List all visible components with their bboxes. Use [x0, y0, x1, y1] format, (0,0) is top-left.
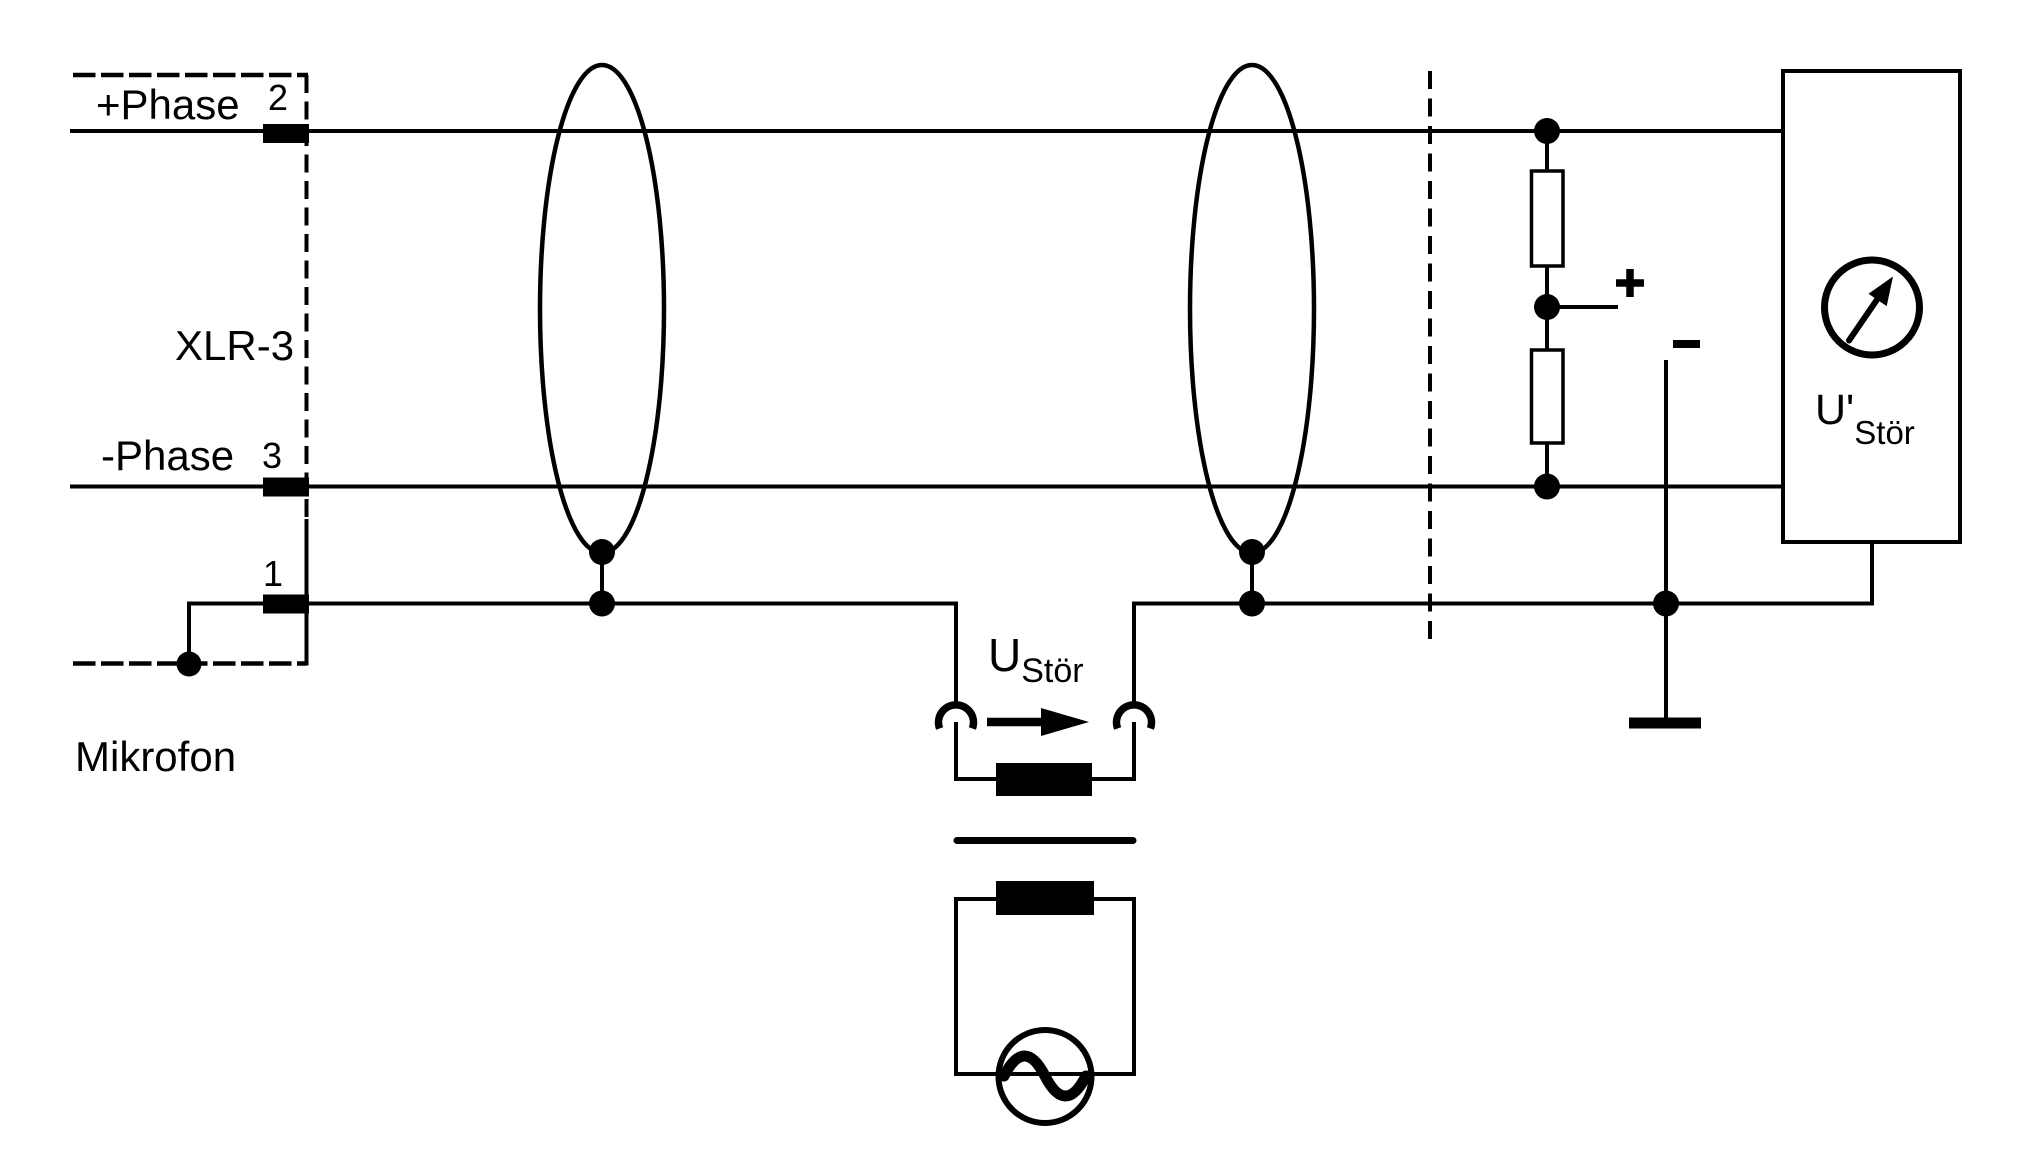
- cable shield ellipse 2: [1190, 65, 1314, 553]
- node shield wire junction 2: [1239, 591, 1265, 617]
- wire shield break left drop upper: [954, 602, 958, 704]
- cable shield ellipse 1: [540, 65, 664, 553]
- dashed boundary line: [1428, 71, 1432, 648]
- wire shield break right drop lower: [1132, 722, 1136, 781]
- node shield ellipse 1 bottom: [589, 539, 615, 565]
- AC source sine wave: [1004, 1056, 1086, 1096]
- ground bar: [1629, 718, 1701, 729]
- wire source loop top left: [956, 897, 996, 901]
- node shield wire junction 1: [589, 591, 615, 617]
- node divider top: [1534, 118, 1560, 144]
- XLR-3 connector dashed outline bottom edge: [73, 661, 306, 666]
- wire microphone drop to shield node: [187, 602, 191, 665]
- XLR-3 connector dashed outline right edge: [305, 75, 309, 519]
- svg-text:1: 1: [263, 553, 283, 594]
- current arrow shaft: [987, 718, 1047, 727]
- node ground junction: [1653, 591, 1679, 617]
- pin 3 contact block: [263, 478, 309, 497]
- XLR-3 connector right edge solid lower segment: [305, 519, 309, 666]
- wire shield right section: [1134, 602, 1872, 606]
- node divider tap: [1534, 294, 1560, 320]
- wire shield break left drop lower: [954, 722, 958, 781]
- meter needle head: [1869, 277, 1894, 307]
- wire source loop top right: [1094, 897, 1134, 901]
- XLR-3 connector dashed outline top edge: [73, 73, 308, 78]
- wire +Phase horizontal: [70, 129, 1783, 133]
- label plus sign: [1616, 269, 1644, 297]
- svg-text:3: 3: [262, 435, 282, 476]
- resistor R2: [1532, 350, 1564, 443]
- wire between resistors lower: [1545, 307, 1549, 350]
- wire minus reference vertical: [1664, 360, 1668, 604]
- wire shield ellipse 1 stub: [600, 552, 604, 603]
- wire to noise block left: [954, 777, 996, 781]
- wire source loop bottom: [954, 1072, 1136, 1076]
- pin 2 contact block: [263, 124, 309, 143]
- wire ground drop: [1664, 604, 1668, 722]
- svg-text:+Phase: +Phase: [96, 81, 240, 128]
- terminal hook right: [1117, 705, 1152, 729]
- svg-text:2: 2: [268, 77, 288, 118]
- svg-text:-Phase: -Phase: [101, 432, 234, 479]
- terminal hook left: [938, 705, 973, 729]
- svg-text:Mikrofon: Mikrofon: [75, 733, 236, 780]
- noise coupling block upper winding: [996, 763, 1092, 796]
- wire source loop left side: [954, 897, 958, 1076]
- node shield ellipse 2 bottom: [1239, 539, 1265, 565]
- wire -Phase horizontal: [70, 485, 1783, 489]
- wire between resistors upper: [1545, 266, 1549, 307]
- meter needle: [1849, 299, 1877, 340]
- wire divider top stub: [1545, 131, 1549, 171]
- wire shield left section: [189, 602, 956, 606]
- wire to noise block right: [1092, 777, 1136, 781]
- node divider bottom: [1534, 474, 1560, 500]
- transformer core bar: [957, 837, 1133, 844]
- AC source circle: [999, 1030, 1092, 1123]
- wire shield ellipse 2 stub: [1250, 552, 1254, 603]
- label minus sign: [1673, 340, 1700, 348]
- wire shield break right drop upper: [1132, 602, 1136, 704]
- meter circle: [1825, 260, 1920, 355]
- svg-text:XLR-3: XLR-3: [175, 322, 294, 369]
- wire divider tap output: [1547, 305, 1618, 309]
- noise coupling block lower winding: [996, 881, 1094, 915]
- wire source loop right side: [1132, 897, 1136, 1076]
- current arrow head: [1041, 708, 1089, 736]
- wire R2 bottom stub: [1545, 443, 1549, 487]
- node microphone shield junction: [177, 652, 202, 677]
- measuring instrument box: [1783, 71, 1960, 542]
- wire meter box bottom drop: [1870, 542, 1874, 606]
- resistor R1: [1532, 171, 1564, 266]
- pin 1 contact block: [263, 595, 309, 614]
